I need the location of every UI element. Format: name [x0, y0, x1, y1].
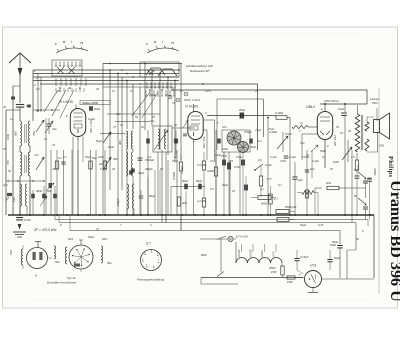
svg-text:27µF: 27µF	[235, 155, 243, 159]
svg-text:50: 50	[174, 123, 177, 127]
svg-text:4a: 4a	[44, 137, 47, 141]
svg-text:0,1: 0,1	[278, 183, 282, 187]
svg-text:0,25µF: 0,25µF	[300, 255, 309, 259]
svg-text:27µF: 27µF	[209, 159, 217, 163]
svg-text:5MΩ: 5MΩ	[261, 202, 267, 206]
svg-text:40: 40	[348, 129, 351, 133]
svg-text:Lautspr.: Lautspr.	[370, 97, 380, 101]
svg-text:25: 25	[2, 147, 6, 151]
svg-text:7012: 7012	[372, 101, 378, 105]
svg-text:M1: M1	[36, 87, 40, 91]
svg-text:155V 52mA: 155V 52mA	[324, 99, 339, 103]
svg-text:60µF: 60µF	[196, 179, 203, 183]
svg-text:105V: 105V	[205, 89, 211, 93]
svg-text:2µF: 2µF	[297, 178, 303, 182]
svg-text:Ω 7: Ω 7	[146, 242, 151, 246]
svg-text:0,25: 0,25	[318, 223, 324, 227]
svg-text:Fassungsbeschaltung: Fassungsbeschaltung	[137, 278, 165, 282]
svg-text:15W: 15W	[287, 280, 293, 284]
svg-text:Philips: Philips	[387, 156, 394, 177]
svg-text:46V, 1.7mA: 46V, 1.7mA	[89, 119, 93, 133]
svg-text:60µF: 60µF	[149, 194, 156, 198]
svg-text:UCH5: UCH5	[237, 249, 241, 257]
svg-text:0,5: 0,5	[210, 187, 214, 191]
svg-text:300: 300	[118, 140, 122, 145]
svg-text:500: 500	[14, 131, 18, 136]
svg-text:SK2: SK2	[68, 237, 74, 241]
svg-text:52V 4mA: 52V 4mA	[333, 135, 337, 146]
svg-text:5MΩ: 5MΩ	[320, 149, 326, 153]
svg-text:0.1MΩ: 0.1MΩ	[275, 111, 283, 115]
svg-text:50µF: 50µF	[96, 139, 103, 143]
svg-text:0,1: 0,1	[258, 139, 262, 143]
svg-text:31MΩ: 31MΩ	[207, 169, 214, 173]
svg-text:K: K	[146, 42, 148, 46]
svg-text:½ UCH5: ½ UCH5	[59, 100, 73, 104]
svg-text:50µF: 50µF	[300, 223, 307, 227]
svg-text:0,5µF: 0,5µF	[100, 167, 107, 171]
svg-text:Tg: Tg	[300, 121, 304, 125]
svg-text:52: 52	[135, 115, 138, 119]
svg-text:700: 700	[32, 131, 36, 136]
svg-text:41b: 41b	[34, 153, 39, 157]
svg-text:1000: 1000	[6, 134, 10, 140]
svg-text:60µF: 60µF	[182, 179, 189, 183]
svg-text:50µF: 50µF	[85, 155, 92, 159]
svg-text:0,1MΩ: 0,1MΩ	[269, 130, 277, 134]
svg-text:0,1µF: 0,1µF	[270, 155, 277, 159]
svg-text:K: K	[55, 42, 57, 46]
svg-text:40µF: 40µF	[94, 107, 101, 111]
svg-text:1MΩ: 1MΩ	[222, 147, 228, 151]
svg-text:8,5nF: 8,5nF	[24, 218, 31, 222]
svg-text:½ UCH5: ½ UCH5	[185, 105, 198, 109]
svg-text:105V, 1.8mA: 105V, 1.8mA	[184, 98, 200, 102]
svg-text:0,1: 0,1	[63, 155, 67, 159]
svg-text:50a: 50a	[107, 261, 112, 265]
svg-text:4µF: 4µF	[47, 189, 52, 193]
svg-text:24Ω: 24Ω	[378, 144, 384, 148]
svg-text:470µF: 470µF	[244, 130, 252, 134]
svg-text:1a2: 1a2	[12, 197, 16, 202]
svg-text:Tg1 4F: Tg1 4F	[67, 276, 76, 280]
svg-text:4,1 MΩ: 4,1 MΩ	[197, 199, 206, 203]
svg-text:31: 31	[306, 153, 309, 157]
svg-text:Drehkanzel 30°: Drehkanzel 30°	[190, 69, 211, 73]
svg-text:60: 60	[160, 167, 163, 171]
svg-text:464: 464	[52, 167, 57, 171]
svg-text:T2: T2	[130, 89, 134, 93]
svg-text:1: 1	[158, 260, 159, 262]
svg-text:Tg2: Tg2	[300, 141, 305, 145]
svg-text:UCH5: UCH5	[249, 249, 253, 257]
svg-text:0,1µF: 0,1µF	[88, 117, 95, 121]
svg-text:2a: 2a	[254, 89, 258, 93]
svg-text:52a: 52a	[150, 119, 155, 123]
svg-text:25µF: 25µF	[171, 159, 179, 163]
svg-text:25nF: 25nF	[220, 154, 227, 158]
svg-text:47µF: 47µF	[255, 128, 262, 132]
svg-text:0,1µF: 0,1µF	[289, 155, 296, 159]
svg-text:46: 46	[112, 167, 115, 171]
svg-text:50: 50	[330, 167, 333, 171]
svg-text:0,1: 0,1	[322, 155, 326, 159]
svg-text:25: 25	[231, 189, 235, 193]
svg-text:4µF: 4µF	[3, 183, 8, 187]
svg-text:31MΩ: 31MΩ	[373, 168, 377, 175]
svg-text:1nF: 1nF	[147, 155, 152, 159]
svg-text:1b: 1b	[112, 89, 115, 93]
svg-text:6,7V 0,3A: 6,7V 0,3A	[236, 235, 248, 239]
svg-text:Dünnfilter-Anschlüsse: Dünnfilter-Anschlüsse	[47, 281, 76, 285]
svg-text:SK2: SK2	[9, 249, 13, 255]
svg-text:3,1 MΩ: 3,1 MΩ	[197, 163, 206, 167]
svg-text:0,1µF: 0,1µF	[265, 163, 272, 167]
svg-text:0.1MΩ: 0.1MΩ	[180, 166, 184, 174]
svg-text:51µF: 51µF	[338, 107, 345, 111]
svg-text:50µF: 50µF	[334, 256, 341, 260]
svg-text:50µ: 50µ	[92, 156, 97, 160]
svg-text:50: 50	[8, 169, 11, 173]
svg-text:1MΩ: 1MΩ	[333, 160, 339, 164]
svg-text:0.1: 0.1	[58, 156, 62, 160]
svg-text:28µF: 28µF	[238, 108, 246, 112]
svg-text:UBL2: UBL2	[306, 105, 315, 109]
svg-text:60W: 60W	[201, 253, 207, 257]
svg-text:1a: 1a	[10, 117, 13, 121]
svg-text:25: 25	[51, 143, 55, 147]
svg-text:0,1µF: 0,1µF	[312, 159, 319, 163]
svg-text:25: 25	[164, 93, 168, 97]
svg-text:Uranus BD 396 U: Uranus BD 396 U	[387, 180, 400, 302]
svg-text:UY3: UY3	[310, 264, 316, 268]
svg-text:25: 25	[119, 123, 123, 127]
svg-text:50: 50	[356, 237, 359, 241]
svg-text:50: 50	[336, 125, 339, 129]
svg-text:150µF: 150µF	[116, 198, 120, 206]
svg-text:1,5: 1,5	[351, 155, 355, 159]
svg-text:460: 460	[113, 157, 118, 161]
svg-text:OSZILLATOR: OSZILLATOR	[82, 101, 98, 105]
svg-text:30: 30	[3, 105, 6, 109]
svg-text:46µF: 46µF	[138, 171, 145, 175]
svg-text:40: 40	[96, 87, 99, 91]
svg-text:4: 4	[142, 258, 143, 261]
svg-text:450Ω: 450Ω	[269, 266, 276, 270]
svg-text:15W: 15W	[271, 270, 277, 274]
svg-text:0,5MΩ: 0,5MΩ	[172, 172, 176, 180]
svg-text:460µF: 460µF	[145, 167, 153, 171]
svg-text:40µF: 40µF	[88, 235, 95, 239]
svg-text:Tg: Tg	[96, 227, 100, 231]
svg-text:0,5µF: 0,5µF	[285, 132, 292, 136]
svg-text:6a: 6a	[354, 168, 357, 172]
svg-text:25: 25	[229, 159, 233, 163]
svg-text:50µF: 50µF	[250, 145, 257, 149]
svg-text:52: 52	[340, 131, 343, 135]
svg-text:Schalterstellung: KW: Schalterstellung: KW	[186, 64, 213, 68]
svg-text:SK2: SK2	[102, 237, 108, 241]
svg-text:UBL2: UBL2	[260, 250, 264, 257]
svg-text:27µF: 27µF	[233, 165, 241, 169]
svg-text:20V, 7mA: 20V, 7mA	[202, 136, 206, 149]
svg-text:50a: 50a	[55, 260, 60, 264]
svg-text:6b: 6b	[354, 194, 357, 198]
svg-text:2kΩ: 2kΩ	[325, 181, 331, 185]
svg-text:700: 700	[6, 160, 10, 165]
svg-text:41a: 41a	[52, 127, 57, 131]
svg-text:ZF = 470,5 kHz: ZF = 470,5 kHz	[33, 228, 57, 232]
svg-text:25µF: 25µF	[107, 145, 115, 149]
svg-text:47: 47	[113, 125, 116, 129]
svg-text:2MΩ: 2MΩ	[97, 155, 104, 159]
svg-text:46µF: 46µF	[222, 183, 229, 187]
svg-text:7MΩ: 7MΩ	[280, 159, 286, 163]
svg-text:4b: 4b	[141, 125, 144, 129]
svg-text:A: A	[34, 274, 37, 278]
svg-text:40µF: 40µF	[36, 189, 43, 193]
svg-text:4,6: 4,6	[258, 158, 262, 162]
svg-text:25: 25	[151, 115, 155, 119]
svg-text:52b: 52b	[222, 125, 227, 129]
svg-text:50µF: 50µF	[330, 243, 337, 247]
svg-text:0,1: 0,1	[260, 187, 264, 191]
svg-text:UY3: UY3	[272, 251, 276, 257]
